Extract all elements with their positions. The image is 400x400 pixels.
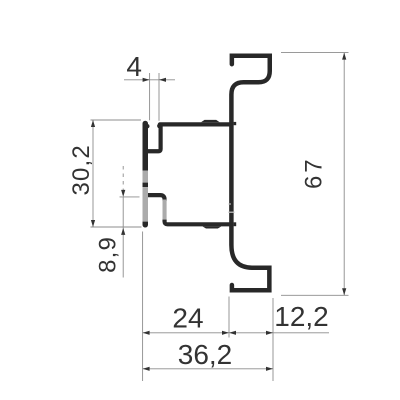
svg-text:12,2: 12,2: [274, 301, 329, 332]
gray gasket vertical of lower step: [163, 200, 167, 221]
svg-text:36,2: 36,2: [178, 339, 233, 370]
svg-text:67: 67: [300, 156, 327, 189]
top bar left bead: [157, 124, 162, 129]
profile outline (top hook, main wall, bottom hook): [231, 56, 269, 291]
dimension 8,9: [104, 166, 142, 278]
dimension 67: [281, 53, 349, 296]
lower step horizontal: [148, 195, 165, 201]
nub right of wall, bottom bar level: [234, 222, 237, 226]
box bottom bar: [165, 220, 232, 225]
rib on top bar: [201, 120, 220, 122]
dimension 30,2: [91, 120, 142, 227]
rib under bottom bar: [202, 226, 221, 228]
dimension 4: [124, 73, 175, 121]
wall break marks: [228, 203, 231, 205]
svg-text:4: 4: [126, 51, 142, 82]
gasket bar bulge: [145, 124, 149, 128]
gasket bar: gray segment 2: [143, 187, 149, 222]
box top bar: [160, 122, 230, 126]
svg-text:24: 24: [172, 303, 203, 334]
gasket bar: black top segment: [143, 123, 149, 170]
svg-text:8,9: 8,9: [94, 236, 121, 273]
nub right of wall, top bar level: [234, 122, 237, 125]
gasket bar: gray segment 1: [143, 171, 149, 183]
gasket bar: black dash: [143, 183, 149, 188]
gasket bar: black bottom tip: [143, 222, 149, 225]
upper step (down then left): [148, 124, 161, 151]
svg-text:30,2: 30,2: [68, 144, 95, 196]
bottom dimensions 24 / 12,2 / 36,2: [143, 232, 329, 382]
